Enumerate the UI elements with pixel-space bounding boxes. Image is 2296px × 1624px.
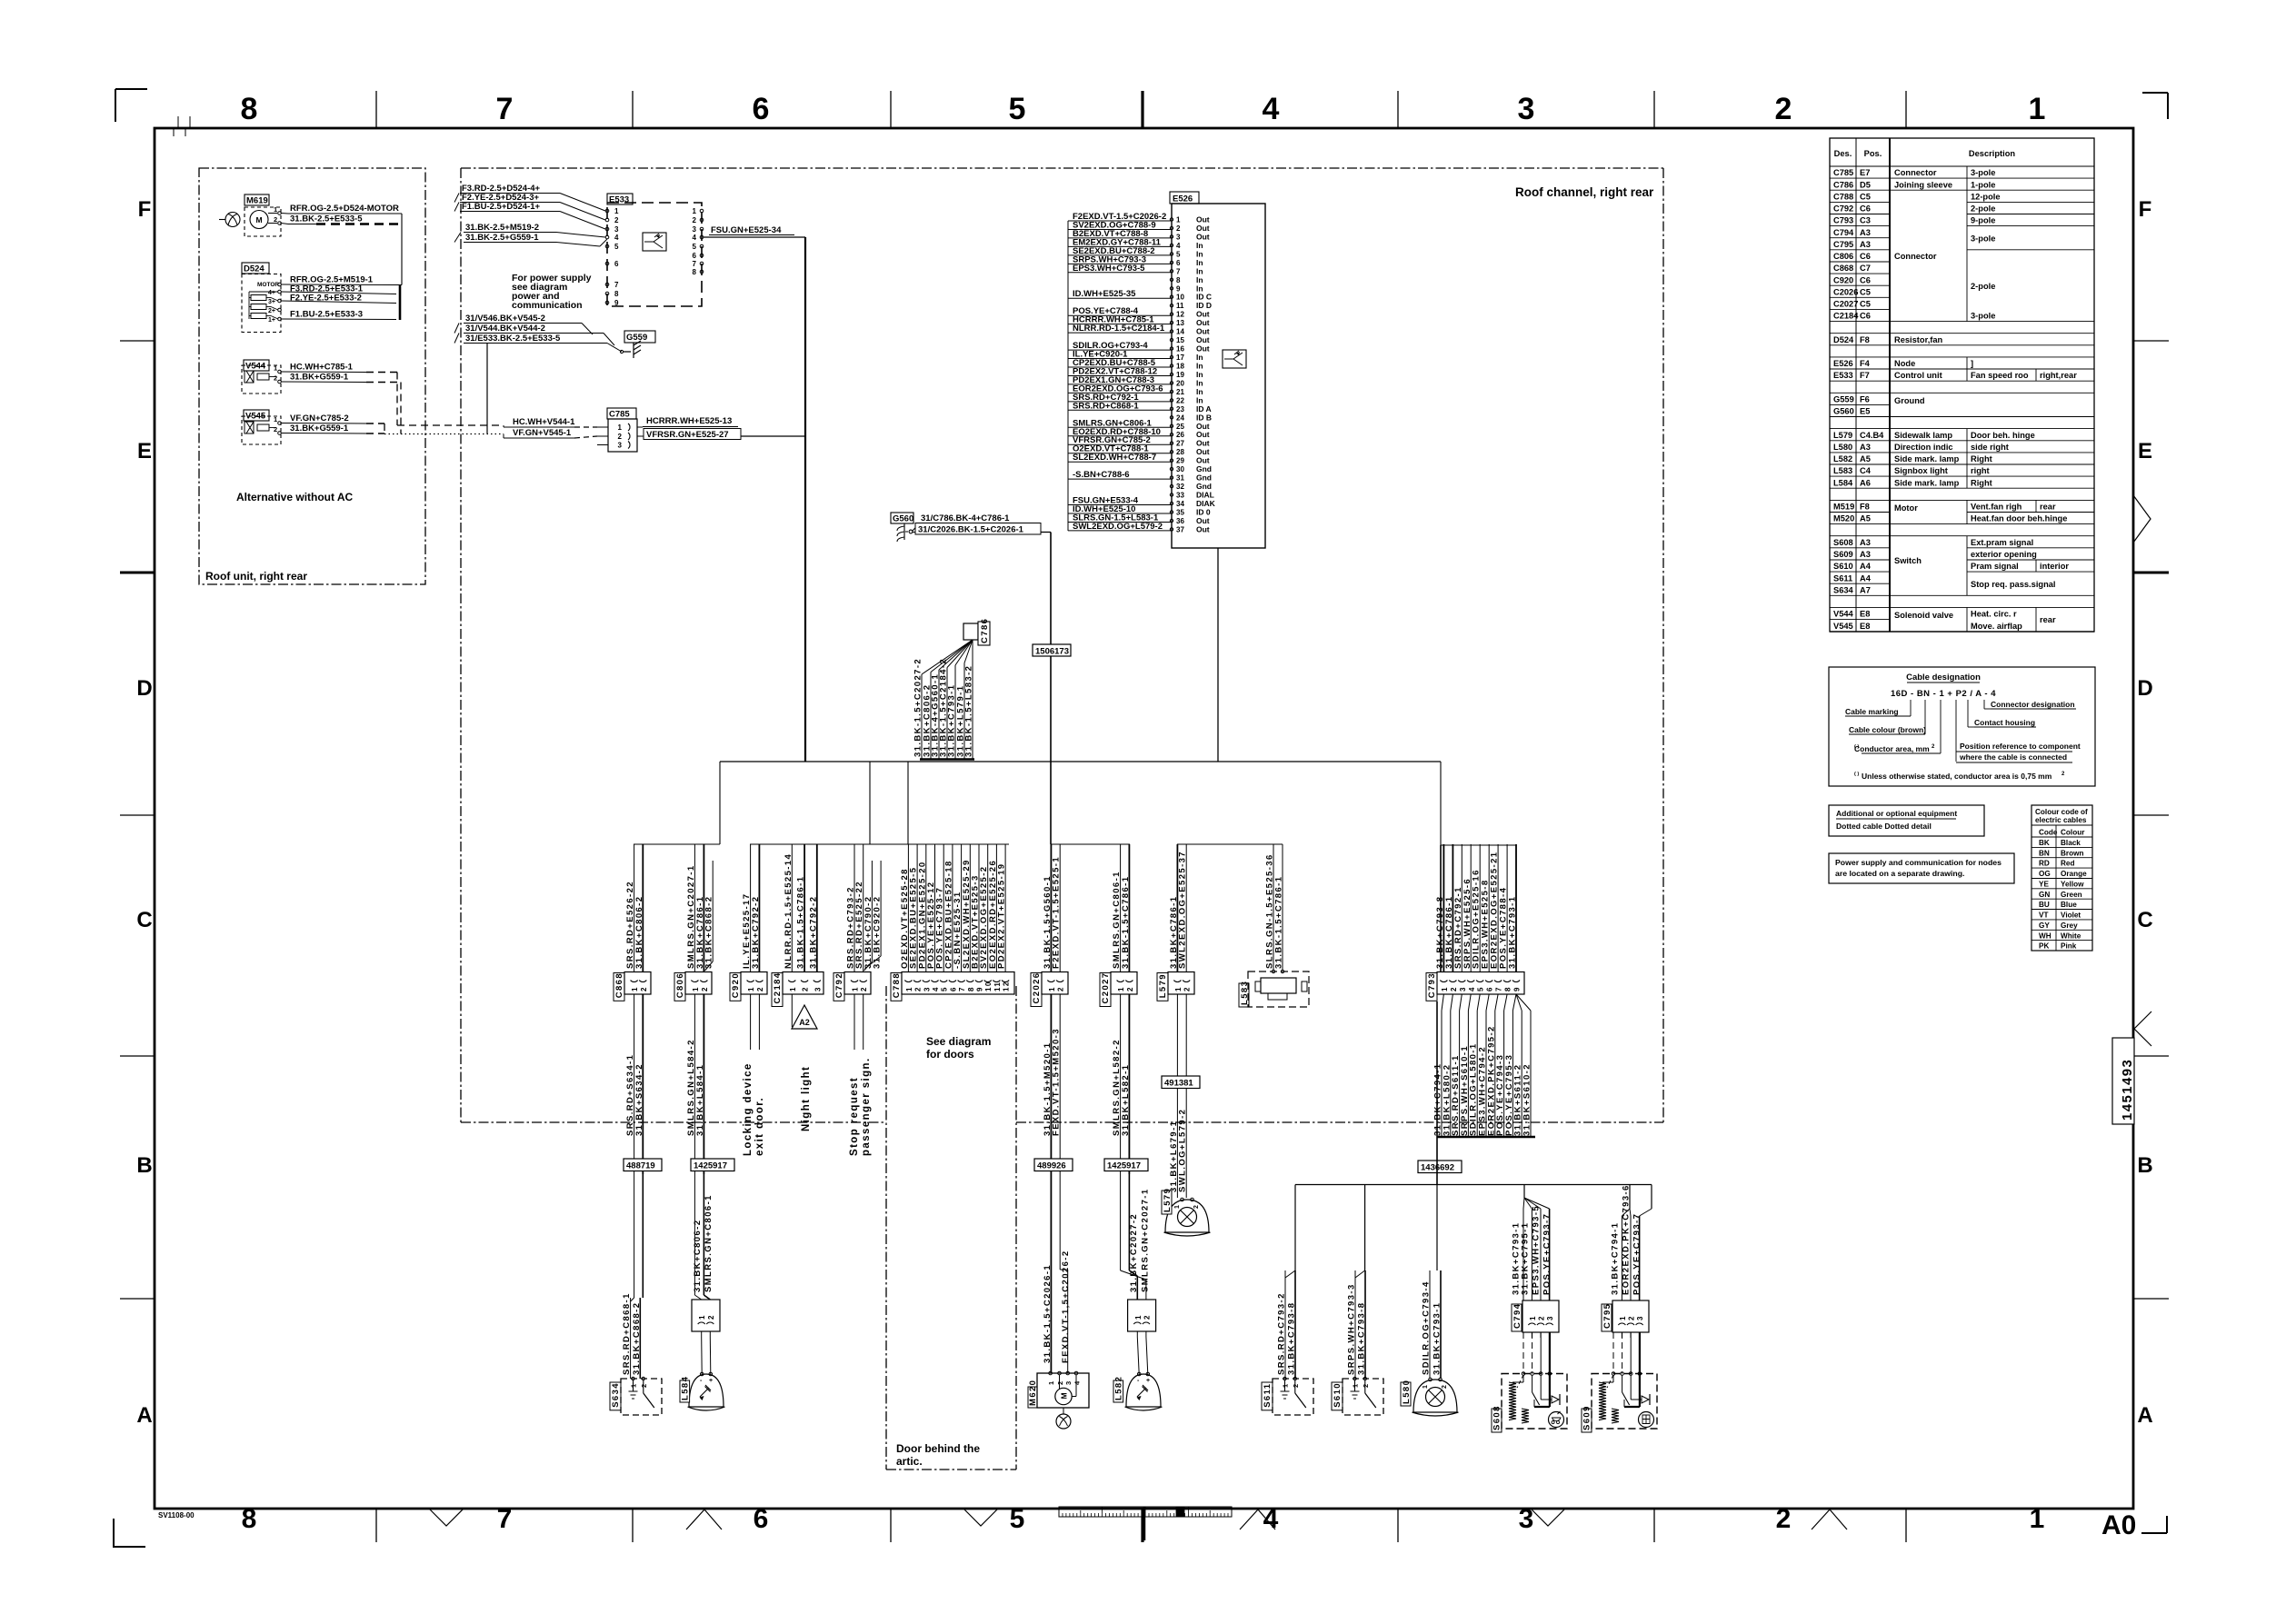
svg-text:1: 1	[1048, 986, 1056, 991]
connector C795	[1612, 1300, 1649, 1332]
leader contact housing	[1967, 700, 1969, 727]
svg-text:ID 0: ID 0	[1196, 508, 1211, 517]
svg-text:M619: M619	[246, 196, 268, 206]
table row C868	[1830, 261, 1890, 263]
svg-text:1: 1	[1619, 1315, 1627, 1320]
svg-text:In: In	[1196, 362, 1203, 371]
zone tick top 1	[632, 91, 634, 128]
svg-text:1425917: 1425917	[1107, 1161, 1141, 1171]
svg-text:Resistor,fan: Resistor,fan	[1894, 335, 1943, 344]
svg-text:FEXD.VT-1.5+M520-3: FEXD.VT-1.5+M520-3	[1052, 1028, 1062, 1136]
svg-text:3: 3	[814, 986, 822, 991]
table row spacer	[1830, 487, 1890, 489]
svg-text:C795: C795	[1602, 1303, 1612, 1329]
svg-text:1: 1	[1441, 986, 1449, 991]
wire to S608 contact 4 (POS.YE bold)	[1549, 1332, 1551, 1374]
wire 31.BK-1.5+M520-1	[1050, 994, 1052, 1174]
svg-text:9: 9	[1176, 284, 1181, 293]
svg-text:Move. airflap: Move. airflap	[1971, 622, 2022, 631]
svg-text:E5: E5	[1860, 407, 1870, 416]
svg-text:31/C2026.BK-1.5+C2026-1: 31/C2026.BK-1.5+C2026-1	[918, 525, 1024, 535]
svg-text:V544: V544	[245, 362, 266, 372]
svg-text:MOTOR: MOTOR	[257, 282, 279, 288]
svg-text:L583: L583	[1833, 466, 1852, 475]
svg-text:3: 3	[1459, 986, 1467, 991]
svg-text:C7: C7	[1860, 264, 1871, 273]
wire SRS.RD+C793-2	[1284, 1270, 1286, 1379]
trunk riser x957	[869, 762, 871, 844]
svg-text:2: 2	[1628, 1315, 1636, 1320]
svg-text:2: 2	[693, 216, 697, 224]
table row spacer	[1830, 594, 1890, 596]
svg-text:27: 27	[1176, 440, 1184, 448]
table row C920	[1830, 273, 1890, 274]
svg-text:In: In	[1196, 266, 1203, 275]
fan symbol below M620	[1056, 1414, 1071, 1429]
svg-text:HC.WH+V544-1: HC.WH+V544-1	[513, 417, 575, 427]
svg-text:Gnd: Gnd	[1196, 464, 1212, 473]
drop to L580	[1436, 1185, 1438, 1271]
svg-text:36: 36	[1176, 517, 1184, 525]
svg-text:G559: G559	[1833, 395, 1854, 404]
svg-text:8: 8	[242, 1504, 257, 1534]
svg-text:3-pole: 3-pole	[1971, 234, 1995, 243]
svg-text:D524: D524	[1833, 335, 1854, 344]
svg-text:C788: C788	[1833, 192, 1853, 201]
svg-text:3: 3	[1519, 1504, 1534, 1534]
E526 pin 12	[1170, 313, 1173, 315]
svg-text:C2184: C2184	[1833, 312, 1859, 321]
svg-text:E526: E526	[1173, 194, 1193, 204]
wire CP2EXD.BU+E525-18	[952, 844, 953, 972]
wire SWL2EXD.OG+E525-37	[1185, 844, 1187, 972]
svg-text:2: 2	[707, 1314, 715, 1320]
svg-text:33: 33	[1176, 492, 1184, 500]
svg-text:C2184: C2184	[773, 972, 783, 1004]
svg-text:Locking device: Locking device	[743, 1062, 754, 1156]
svg-text:1: 1	[614, 207, 619, 215]
wire 31.BK-1.5+G560-1	[1050, 844, 1052, 972]
wire SRS.RD+C868-1	[630, 1298, 632, 1379]
svg-text:G559: G559	[626, 333, 647, 343]
svg-text:C2027: C2027	[1101, 972, 1111, 1004]
E526 pin 28	[1170, 451, 1173, 453]
connector to L584	[692, 1300, 720, 1331]
wire SLRS.GN-1.5+E525-36	[1273, 844, 1274, 970]
svg-text:1: 1	[2029, 92, 2046, 126]
svg-text:8: 8	[1176, 276, 1181, 284]
svg-text:C794: C794	[1833, 228, 1854, 237]
svg-text:Code: Code	[2039, 829, 2058, 837]
connector C868	[614, 973, 624, 1001]
resistor element 3	[251, 314, 266, 319]
svg-text:28: 28	[1176, 448, 1184, 456]
id 1425917 b	[1104, 1159, 1148, 1171]
svg-text:1: 1	[747, 986, 755, 991]
wire VFRSR.GN+E525-27	[644, 429, 741, 440]
svg-text:S611: S611	[1833, 573, 1852, 583]
svg-text:Right: Right	[1971, 478, 1992, 487]
joining sleeve C786	[963, 623, 978, 640]
fold mark ^2	[1240, 1509, 1275, 1529]
cable designation box	[1829, 667, 2095, 786]
drawing number 1451493	[2112, 1038, 2134, 1124]
zone tick right 2	[2133, 814, 2169, 816]
svg-text:Solenoid valve: Solenoid valve	[1894, 611, 1953, 620]
wire 31.BK-1.5+C786-1	[1128, 844, 1130, 972]
table row C786	[1830, 177, 1890, 179]
svg-text:Yellow: Yellow	[2061, 881, 2084, 889]
wire FEXD.VT-1.5+M520-3	[1059, 994, 1061, 1174]
svg-text:A3: A3	[1860, 550, 1871, 559]
wire SDILR.OG+L580-1	[1477, 994, 1480, 1011]
svg-text:A5: A5	[1860, 454, 1871, 463]
colour row BU	[2031, 898, 2092, 900]
svg-text:1: 1	[1423, 1384, 1429, 1389]
svg-text:( ): ( )	[1854, 772, 1859, 777]
side marking lamp L582	[1126, 1374, 1161, 1407]
svg-text:Power supply and communication: Power supply and communication for nodes	[1835, 858, 2002, 867]
zone tick bottom 1	[632, 1509, 634, 1542]
svg-text:D524: D524	[244, 264, 265, 274]
wire	[1630, 1209, 1631, 1216]
svg-text:9-pole: 9-pole	[1971, 216, 1995, 225]
svg-text:Control unit: Control unit	[1894, 371, 1942, 380]
E526 pin 6	[1170, 261, 1173, 264]
svg-text:1: 1	[618, 423, 623, 432]
svg-text:7: 7	[497, 1504, 513, 1534]
svg-text:Roof channel, right rear: Roof channel, right rear	[1515, 185, 1654, 199]
svg-text:NLRR.RD-1.5+E525-14: NLRR.RD-1.5+E525-14	[784, 853, 794, 969]
svg-text:C4: C4	[1860, 466, 1872, 475]
id 491381	[1162, 1076, 1200, 1089]
svg-text:2: 2	[614, 216, 619, 224]
wire 31.BK+L584-1	[703, 994, 704, 1174]
svg-text:BK: BK	[2039, 839, 2050, 847]
E526 pin 10	[1170, 295, 1173, 298]
svg-text:L579: L579	[1833, 431, 1852, 440]
table row V545	[1830, 619, 1890, 621]
svg-text:M519: M519	[1833, 503, 1854, 512]
svg-text:L584: L584	[1833, 478, 1853, 487]
svg-text:4: 4	[932, 986, 940, 991]
svg-text:C794: C794	[1512, 1303, 1522, 1329]
wire	[791, 994, 793, 1027]
connector C2184	[772, 973, 783, 1007]
svg-text:In: In	[1196, 249, 1203, 258]
svg-text:EPS3.WH+C793-5: EPS3.WH+C793-5	[1073, 264, 1145, 274]
fold mark ^1	[686, 1509, 722, 1529]
wire 31.BK+C786-1	[703, 844, 704, 972]
svg-text:8: 8	[1504, 986, 1512, 991]
connector C792	[834, 973, 844, 1001]
svg-text:9: 9	[976, 986, 984, 991]
table row C792	[1830, 201, 1890, 203]
wire 31.BK+L579-1	[964, 640, 973, 663]
table row C794	[1830, 225, 1890, 227]
wire to S609 contact 3	[1630, 1332, 1632, 1374]
border frame	[155, 128, 2133, 1509]
E526 pin 14	[1170, 330, 1173, 333]
motor M619	[245, 194, 269, 205]
svg-text:2: 2	[1056, 1380, 1064, 1385]
svg-text:Out: Out	[1196, 318, 1210, 327]
svg-text:-S.BN+C788-6: -S.BN+C788-6	[1073, 470, 1130, 480]
zone tick bottom 4	[1397, 1509, 1399, 1542]
wire NLRR.RD-1.5+E525-14	[791, 844, 793, 972]
table row C806	[1830, 249, 1890, 251]
svg-text:V544: V544	[1833, 610, 1854, 619]
svg-text:8: 8	[693, 268, 697, 276]
svg-text:2: 2	[802, 986, 810, 991]
svg-text:RFR.OG-2.5+D524-MOTOR: RFR.OG-2.5+D524-MOTOR	[290, 204, 399, 214]
signbox light L583	[1239, 983, 1249, 1007]
svg-text:32: 32	[1176, 483, 1184, 491]
drop to C794	[1523, 1185, 1525, 1199]
wire 31.BK-1.5+C786-1	[804, 844, 805, 972]
E526 pin 16	[1170, 347, 1173, 350]
connector C920	[730, 973, 741, 1001]
wire 31.BK+C868-2	[712, 861, 714, 961]
svg-text:3: 3	[1064, 1380, 1073, 1385]
wire	[750, 994, 752, 1050]
svg-text:C788: C788	[892, 972, 902, 998]
E526 pin 1	[1170, 218, 1173, 221]
svg-text:6: 6	[1176, 259, 1181, 267]
svg-text:E8: E8	[1860, 622, 1870, 631]
svg-text:3: 3	[693, 225, 697, 234]
svg-text:for doors: for doors	[926, 1048, 974, 1061]
dotted wire continuation	[384, 433, 504, 435]
svg-text:S608: S608	[1492, 1405, 1502, 1430]
wire -S.BN+E525-31	[961, 844, 963, 972]
svg-text:1: 1	[698, 1314, 706, 1320]
wire 31.BK+S634-2	[642, 994, 644, 1174]
svg-text:2: 2	[1183, 986, 1192, 991]
svg-text:GY: GY	[2039, 922, 2050, 930]
svg-text:C6: C6	[1860, 275, 1871, 284]
svg-text:31.BK-1.5+L583-2: 31.BK-1.5+L583-2	[964, 665, 974, 757]
additional equipment box	[1829, 805, 1984, 836]
svg-text:A3: A3	[1860, 443, 1871, 452]
table row C795	[1830, 237, 1890, 239]
svg-text:C920: C920	[1833, 275, 1853, 284]
svg-text:EPS3.WH+C793-5: EPS3.WH+C793-5	[1532, 1205, 1542, 1295]
svg-text:31/C786.BK-4+C786-1: 31/C786.BK-4+C786-1	[921, 513, 1010, 523]
node E526	[1170, 192, 1199, 204]
svg-text:Vent.fan righ: Vent.fan righ	[1971, 503, 2022, 512]
svg-text:16D - BN - 1 + P2 / A - 4: 16D - BN - 1 + P2 / A - 4	[1891, 689, 1996, 699]
wire 31.BK+C790-2	[871, 861, 873, 961]
svg-text:3-pole: 3-pole	[1971, 168, 1995, 177]
table row spacer	[1830, 416, 1890, 418]
wire 31.BK+C793-8	[1442, 844, 1444, 972]
svg-text:1: 1	[1134, 1314, 1143, 1320]
svg-text:Blue: Blue	[2061, 901, 2077, 909]
svg-text:2: 2	[640, 986, 648, 991]
svg-text:31.BK-1.5+C786-1: 31.BK-1.5+C786-1	[1121, 876, 1131, 969]
svg-text:5: 5	[941, 986, 949, 991]
svg-text:12-pole: 12-pole	[1971, 192, 2001, 201]
svg-text:passenger sign.: passenger sign.	[861, 1057, 872, 1156]
svg-text:6: 6	[614, 260, 619, 268]
wire POS.YE+C795-3	[1512, 994, 1516, 1011]
svg-text:L579: L579	[1163, 1188, 1173, 1212]
svg-text:Node: Node	[1894, 359, 1915, 368]
svg-text:C: C	[2137, 908, 2152, 932]
svg-text:Alternative without AC: Alternative without AC	[236, 491, 354, 503]
svg-text:C5: C5	[1860, 300, 1871, 309]
svg-text:F1.BU-2.5+D524-1+: F1.BU-2.5+D524-1+	[462, 202, 541, 212]
fold mark v3	[1531, 1509, 1565, 1526]
E526 pin 15	[1170, 338, 1173, 341]
wire	[1622, 1209, 1630, 1216]
transistor symbol in E526	[1223, 350, 1246, 368]
svg-text:7: 7	[958, 986, 966, 991]
wire O2EXD.VT+E525-28	[907, 844, 909, 972]
svg-text:F8: F8	[1860, 503, 1870, 512]
svg-text:L579: L579	[1158, 973, 1168, 998]
svg-text:See diagram: See diagram	[926, 1035, 991, 1048]
sidewalk lamp L579	[1165, 1200, 1209, 1232]
zone tick top 0	[375, 91, 377, 128]
svg-text:34: 34	[1176, 500, 1184, 508]
svg-text:1451493: 1451493	[2120, 1059, 2135, 1121]
svg-text:electric cables: electric cables	[2035, 816, 2087, 824]
colour row GN	[2031, 888, 2092, 890]
wire SRS.RD+S634-1	[634, 994, 635, 1174]
svg-text:Connector: Connector	[1894, 168, 1937, 177]
svg-text:31.BK+C795-1: 31.BK+C795-1	[1521, 1222, 1531, 1295]
table row M520	[1830, 512, 1890, 513]
svg-text:2: 2	[1176, 224, 1181, 233]
colour code table	[2031, 805, 2092, 951]
wire 31.BK+C806-2	[931, 640, 973, 673]
wire SV2EXD.OG+E525-2	[987, 844, 989, 972]
svg-text:SWL.OG+L579-2: SWL.OG+L579-2	[1178, 1109, 1188, 1192]
resistor element 1	[251, 295, 266, 301]
svg-text:E526: E526	[1833, 359, 1853, 368]
svg-text:21: 21	[1176, 388, 1184, 396]
svg-text:Out: Out	[1196, 447, 1210, 456]
table row S608	[1830, 535, 1890, 537]
connector C785	[607, 408, 636, 419]
svg-text:rear: rear	[2040, 615, 2056, 624]
svg-text:31.BK-2.5+M519-2: 31.BK-2.5+M519-2	[465, 223, 539, 233]
svg-text:4: 4	[1263, 1504, 1279, 1534]
svg-text:4: 4	[1073, 1380, 1082, 1385]
svg-text:B: B	[136, 1153, 152, 1178]
colour row PK	[2031, 940, 2092, 942]
drop to S610	[1364, 1185, 1366, 1271]
wire	[1176, 994, 1178, 1198]
wire EO2EXD.RD+E525-26	[995, 844, 997, 972]
svg-text:6: 6	[753, 92, 770, 126]
svg-text:In: In	[1196, 387, 1203, 396]
svg-text:FEXD.VT-1,5+C2026-2: FEXD.VT-1,5+C2026-2	[1061, 1250, 1071, 1363]
svg-text:A4: A4	[1860, 573, 1872, 583]
svg-text:26: 26	[1176, 431, 1184, 439]
svg-text:Stop request: Stop request	[849, 1077, 860, 1156]
colour row GY	[2031, 919, 2092, 921]
svg-text:Signbox light: Signbox light	[1894, 466, 1948, 475]
svg-text:C920: C920	[731, 972, 741, 998]
svg-text:2: 2	[1193, 1204, 1200, 1209]
zone tick bottom 5	[1653, 1509, 1655, 1542]
E526 pin 22	[1170, 399, 1173, 402]
svg-text:5: 5	[614, 243, 619, 251]
svg-text:A: A	[136, 1403, 152, 1428]
svg-text:7: 7	[1495, 986, 1503, 991]
wire 31.BK+C793-1	[1515, 844, 1517, 972]
svg-text:SWL2EXD.OG+E525-37: SWL2EXD.OG+E525-37	[1178, 851, 1188, 969]
svg-text:E7: E7	[1860, 168, 1870, 177]
E526 pin 17	[1170, 355, 1173, 358]
wire 31.BK+C793-8	[1364, 1270, 1366, 1379]
svg-text:C806: C806	[1833, 252, 1853, 261]
svg-text:3: 3	[923, 986, 931, 991]
E526 pin 13	[1170, 321, 1173, 324]
svg-text:2: 2	[914, 986, 923, 991]
svg-text:C6: C6	[1860, 252, 1871, 261]
svg-text:SL2EXD.WH+C788-7: SL2EXD.WH+C788-7	[1073, 453, 1156, 463]
svg-text:1+: 1+	[268, 317, 275, 324]
zone tick right 4	[2133, 1298, 2169, 1300]
svg-text:13: 13	[1176, 319, 1184, 327]
svg-text:C4.B4: C4.B4	[1860, 431, 1884, 440]
wire	[1524, 1198, 1532, 1209]
svg-text:4: 4	[614, 234, 619, 242]
svg-text:Cable designation: Cable designation	[1906, 673, 1981, 682]
svg-text:5: 5	[1010, 1504, 1025, 1534]
svg-text:2: 2	[274, 215, 277, 224]
svg-text:2: 2	[1442, 1384, 1448, 1389]
svg-text:C806: C806	[675, 972, 685, 998]
svg-text:1: 1	[1117, 986, 1125, 991]
svg-text:2-pole: 2-pole	[1971, 204, 1995, 214]
E526 pin 19	[1170, 373, 1173, 375]
svg-text:In: In	[1196, 353, 1203, 362]
svg-text:In: In	[1196, 241, 1203, 250]
svg-text:C785: C785	[609, 410, 630, 420]
svg-text:35: 35	[1176, 509, 1184, 517]
svg-text:1: 1	[905, 986, 913, 991]
wire 31.BK-1.5+C2027-2	[922, 640, 973, 674]
table row S634	[1830, 583, 1890, 584]
wire PD2EX1.GN+E525-20	[925, 844, 927, 972]
wire EOR2EXD.PK+C795-2	[1495, 994, 1498, 1011]
E526 pin 24	[1170, 416, 1173, 419]
svg-text:Right: Right	[1971, 454, 1992, 463]
wire 31.BK+C794-1 bypass	[1612, 1332, 1614, 1374]
svg-text:Out: Out	[1196, 430, 1210, 439]
svg-text:C868: C868	[614, 972, 624, 998]
svg-text:D: D	[2137, 676, 2152, 701]
svg-text:Red: Red	[2061, 860, 2074, 868]
wire SDILR.OG+C793-4	[1429, 1270, 1431, 1379]
E526 pin 30	[1170, 467, 1173, 470]
svg-text:SDILR.OG+C793-4: SDILR.OG+C793-4	[1422, 1280, 1432, 1375]
svg-text:1: 1	[852, 986, 860, 991]
E526 pin 20	[1170, 382, 1173, 384]
svg-text:31/E533.BK-2.5+E533-5: 31/E533.BK-2.5+E533-5	[465, 334, 561, 344]
svg-text:8: 8	[241, 92, 258, 126]
svg-text:right: right	[1971, 466, 1990, 475]
svg-text:BU: BU	[2039, 901, 2050, 909]
svg-text:S610: S610	[1833, 562, 1853, 571]
wire SRPS.WH+S610-1	[1468, 994, 1471, 1011]
svg-text:Joining sleeve: Joining sleeve	[1894, 180, 1952, 189]
